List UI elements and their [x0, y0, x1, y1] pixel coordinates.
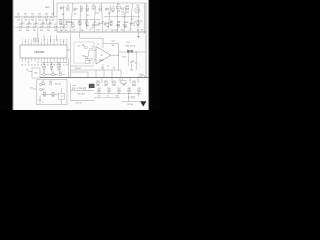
wire bm vert	[61, 88, 63, 93]
wire vertical boxA 9	[124, 6, 126, 33]
component C14	[47, 26, 50, 28]
wire horiz y70	[71, 69, 122, 71]
svg-text:56p: 56p	[121, 11, 124, 13]
component R21	[85, 57, 88, 59]
component C44	[40, 84, 42, 85]
wire vertical bus	[70, 34, 72, 78]
component C21	[104, 22, 106, 24]
svg-text:C25: C25	[73, 30, 76, 32]
svg-text:12: 12	[56, 39, 58, 41]
svg-text:1k: 1k	[93, 9, 95, 11]
node J1	[118, 55, 119, 56]
wire stub br2 1	[98, 89, 100, 92]
wire det mid	[88, 51, 90, 57]
svg-text:C34: C34	[116, 25, 119, 27]
right black border band	[148, 0, 150, 110]
svg-text:Q1: Q1	[136, 5, 138, 7]
svg-text:26: 26	[28, 64, 30, 66]
svg-text:2k: 2k	[105, 30, 107, 32]
wire out right	[121, 51, 146, 53]
svg-text:R1: R1	[17, 14, 19, 16]
svg-text:2k2: 2k2	[52, 19, 55, 21]
component R16	[72, 25, 75, 27]
svg-text:8p2: 8p2	[45, 19, 48, 21]
svg-text:23: 23	[37, 64, 39, 66]
svg-text:24: 24	[34, 64, 36, 66]
component R41	[43, 94, 46, 96]
svg-text:R27: R27	[118, 22, 121, 24]
resistor R5	[45, 16, 48, 18]
svg-text:R52: R52	[104, 81, 107, 83]
module box A right inner	[144, 3, 146, 34]
svg-text:IC3: IC3	[107, 65, 110, 67]
component C10	[19, 26, 22, 28]
svg-text:C24: C24	[94, 22, 97, 24]
wire U1 bottom bus	[41, 61, 67, 63]
wire main rail	[40, 77, 149, 79]
wire vertical boxA 5	[94, 6, 95, 33]
switch S2 contacts	[127, 50, 129, 52]
svg-text:C17: C17	[54, 24, 57, 26]
resistor R3	[31, 16, 34, 18]
svg-text:33p: 33p	[111, 30, 114, 32]
component R57	[132, 97, 135, 99]
svg-text:C42: C42	[49, 81, 52, 83]
component R15	[66, 20, 68, 22]
component C22	[110, 23, 113, 25]
svg-text:R5: R5	[128, 97, 130, 99]
svg-text:R24: R24	[127, 42, 130, 44]
detector box	[74, 42, 94, 63]
component D20	[98, 22, 100, 24]
component R55	[108, 90, 110, 91]
svg-text:7: 7	[41, 39, 42, 41]
svg-text:1n: 1n	[81, 11, 83, 13]
component D6	[92, 7, 95, 8]
svg-text:C22: C22	[112, 41, 115, 43]
component R19b	[61, 26, 64, 28]
wire U2 below stub	[102, 64, 104, 70]
svg-text:T4: T4	[81, 6, 83, 8]
svg-text:10k: 10k	[102, 22, 105, 24]
component L9	[112, 9, 115, 11]
component R25	[130, 22, 132, 24]
wire U2 out	[111, 54, 119, 56]
wire br bus	[94, 92, 140, 94]
bottom module left edge	[70, 83, 72, 101]
svg-text:+T7: +T7	[91, 46, 94, 48]
svg-text:FL1: FL1	[86, 58, 89, 60]
component R14	[59, 22, 62, 24]
component R30	[58, 62, 60, 66]
svg-text:47k: 47k	[78, 21, 81, 23]
svg-text:R26: R26	[70, 22, 73, 24]
svg-text:11: 11	[53, 39, 55, 41]
svg-text:18: 18	[53, 64, 55, 66]
wire inner y90	[71, 90, 95, 92]
component C18	[122, 8, 124, 9]
svg-text:D1: D1	[43, 72, 45, 74]
svg-text:C44: C44	[42, 84, 45, 86]
svg-text:R21: R21	[82, 55, 85, 57]
svg-text:R30: R30	[58, 64, 61, 66]
svg-text:18p: 18p	[81, 30, 84, 32]
svg-text:10: 10	[50, 39, 52, 41]
wire vertical boxA 11	[137, 6, 140, 33]
wire under U1	[41, 74, 65, 76]
component C21	[90, 59, 93, 61]
svg-text:C26: C26	[121, 30, 124, 32]
svg-text:R6: R6	[52, 14, 54, 16]
capacitor C3	[35, 17, 37, 23]
bottom module bottom2	[94, 97, 120, 99]
wire vert x118	[118, 44, 120, 71]
component C57	[118, 90, 120, 91]
left black border band	[0, 0, 12, 110]
svg-text:3: 3	[28, 39, 29, 41]
svg-text:1 C3: 1 C3	[77, 46, 80, 48]
wire stub b	[103, 70, 105, 78]
svg-text:U2: U2	[100, 55, 102, 57]
component small right box	[85, 61, 89, 64]
dark box S1	[89, 84, 94, 88]
wire bm horiz	[41, 94, 59, 96]
svg-text:8p2: 8p2	[111, 11, 114, 13]
svg-text:8p: 8p	[60, 30, 62, 32]
component L23	[117, 24, 120, 26]
svg-text:R5: R5	[45, 14, 47, 16]
component C52	[133, 83, 136, 85]
svg-text:47k: 47k	[59, 24, 62, 26]
svg-text:R14: R14	[59, 20, 62, 22]
svg-text:33k: 33k	[40, 30, 43, 32]
svg-text:T6: T6	[96, 25, 98, 27]
module box A right edge	[145, 3, 147, 78]
svg-text:C55 100n: C55 100n	[77, 94, 85, 96]
component C11	[26, 26, 29, 28]
svg-text:C17: C17	[123, 14, 126, 16]
svg-text:2n2: 2n2	[137, 30, 140, 32]
svg-text:1n: 1n	[30, 24, 32, 26]
component R5	[86, 8, 89, 10]
svg-text:1n5: 1n5	[131, 19, 134, 21]
transistor Q1	[135, 8, 140, 13]
wire U2 in-	[94, 59, 96, 61]
component C31	[51, 62, 53, 66]
resistor R31	[59, 74, 61, 75]
wire stub br 2	[111, 78, 113, 83]
svg-text:ANT1: ANT1	[45, 6, 49, 9]
component C30	[43, 62, 45, 66]
wire stub br2 4	[128, 89, 130, 92]
svg-text:R3: R3	[31, 14, 33, 16]
antenna wire	[53, 0, 55, 16]
svg-text:2k2: 2k2	[72, 27, 75, 29]
svg-text:220: 220	[65, 30, 68, 32]
wire vert x121 to rail	[120, 70, 122, 78]
wire vertical boxA 10	[131, 3, 133, 30]
svg-text:2k2: 2k2	[62, 7, 65, 9]
IC U1 outline	[20, 45, 67, 58]
capacitor C42	[49, 83, 51, 84]
wire br bottom	[122, 101, 140, 103]
svg-text:47u: 47u	[98, 96, 101, 98]
svg-text:56k: 56k	[33, 30, 36, 32]
svg-text:C31: C31	[50, 64, 53, 66]
component C41	[52, 94, 55, 96]
ground arrow GA	[137, 36, 140, 38]
svg-text:1n: 1n	[23, 24, 25, 26]
svg-text:R2: R2	[24, 14, 26, 16]
wire vertical boxA 3	[79, 6, 81, 33]
svg-text:C61 10u: C61 10u	[127, 104, 133, 106]
bottom module bottom	[71, 100, 95, 102]
svg-text:22k: 22k	[108, 13, 111, 15]
wire stub br 1	[101, 78, 103, 83]
microphone MIC1	[32, 68, 40, 78]
svg-text:1n: 1n	[51, 24, 53, 26]
svg-text:L2: L2	[67, 5, 69, 7]
op-amp U2	[96, 47, 111, 65]
svg-text:R41: R41	[43, 92, 46, 94]
svg-text:47n: 47n	[125, 26, 128, 28]
svg-text:25: 25	[31, 64, 33, 66]
svg-text:K3: K3	[30, 87, 32, 89]
svg-text:K2: K2	[26, 69, 28, 71]
wire U2 in+	[94, 50, 96, 52]
svg-text:C59: C59	[116, 96, 119, 98]
svg-text:R13: R13	[126, 6, 129, 8]
IC U1 top pins	[21, 41, 23, 45]
wire vert x136	[135, 53, 137, 62]
svg-text:13: 13	[59, 39, 61, 41]
svg-text:10k: 10k	[97, 85, 100, 87]
svg-text:R4: R4	[38, 14, 40, 16]
logo triangle	[140, 101, 146, 106]
component R52	[105, 83, 108, 85]
wire stub br2 2	[108, 89, 110, 92]
svg-text:2k2: 2k2	[126, 12, 129, 14]
wire U2 feed	[102, 38, 104, 48]
wire second row	[15, 26, 64, 28]
wire drop pin c	[56, 35, 58, 41]
wire stub br2 5	[138, 89, 140, 92]
wire nested y66	[71, 65, 95, 67]
node J3	[136, 51, 137, 52]
component R51	[97, 83, 100, 85]
resistor R1	[17, 16, 20, 18]
wire drop pin a	[43, 35, 45, 41]
ticks right rail	[138, 76, 140, 78]
svg-text:1n: 1n	[79, 25, 81, 27]
svg-text:47k: 47k	[106, 23, 109, 25]
capacitor C2	[28, 17, 30, 23]
svg-text:LS1 8: LS1 8	[122, 57, 126, 59]
wire drop pin b	[50, 35, 52, 41]
svg-text:4u7: 4u7	[129, 29, 132, 31]
svg-text:C11: C11	[26, 24, 29, 26]
svg-text:20: 20	[47, 64, 49, 66]
svg-text:C30: C30	[43, 64, 46, 66]
svg-text:15: 15	[63, 64, 65, 66]
svg-text:1n: 1n	[44, 24, 46, 26]
svg-text:6: 6	[38, 39, 39, 41]
crystal XT1	[117, 6, 121, 8]
svg-text:2k2: 2k2	[19, 30, 22, 32]
svg-text:1k: 1k	[44, 96, 46, 98]
wire br drop2	[138, 93, 140, 96]
component R53	[123, 83, 126, 85]
svg-text:R19: R19	[96, 13, 99, 15]
svg-text:4: 4	[31, 39, 32, 41]
svg-text:1k: 1k	[91, 27, 93, 29]
resistor R13	[126, 8, 129, 10]
capacitor C23	[135, 61, 137, 64]
wire right stub	[139, 73, 141, 78]
wire horiz y38	[80, 37, 104, 39]
component box corner	[121, 80, 126, 83]
U1 bottom dots	[27, 61, 30, 64]
wire jog x118	[119, 51, 122, 53]
wire stub br 4	[129, 78, 131, 83]
wire vertical boxA 8	[117, 3, 119, 32]
wire stub a	[95, 70, 97, 78]
svg-text:XT1: XT1	[117, 4, 120, 6]
wire X1 drop	[37, 29, 39, 38]
svg-text:56k: 56k	[38, 19, 41, 21]
svg-text:10n: 10n	[113, 68, 116, 70]
svg-text:D3: D3	[42, 81, 44, 83]
wire vertical boxA 2	[71, 3, 73, 32]
component L2	[66, 7, 69, 9]
capacitor C5	[49, 17, 51, 23]
wire stub c	[111, 70, 113, 78]
svg-text:10n: 10n	[113, 85, 116, 87]
svg-text:15: 15	[66, 39, 68, 41]
svg-text:C12: C12	[33, 24, 36, 26]
connector K1	[15, 16, 17, 18]
node J2	[128, 51, 129, 52]
wire horiz y43.5	[103, 43, 119, 45]
svg-text:T5: T5	[89, 30, 91, 32]
wire vertical bus2	[68, 58, 70, 78]
component C20	[90, 49, 93, 51]
svg-text:C13: C13	[40, 24, 43, 26]
svg-text:C41: C41	[51, 92, 54, 94]
svg-text:10k: 10k	[110, 25, 113, 27]
svg-text:2k2: 2k2	[17, 19, 20, 21]
svg-text:68n: 68n	[126, 22, 129, 24]
svg-text:10u: 10u	[112, 45, 115, 47]
svg-text:R31: R31	[59, 72, 62, 74]
svg-text:R20: R20	[82, 45, 85, 47]
component T4	[80, 8, 83, 10]
wire stub br 3	[119, 78, 121, 83]
svg-text:C60: C60	[130, 62, 133, 64]
wire gnd drop	[138, 32, 140, 36]
svg-text:10n: 10n	[74, 14, 77, 16]
component C13	[40, 26, 43, 28]
svg-text:C10: C10	[19, 24, 22, 26]
U1 top dots	[24, 40, 27, 43]
component C17b	[54, 26, 57, 28]
svg-text:SW1 C15 1k: SW1 C15 1k	[125, 46, 135, 48]
capacitor C4	[42, 17, 44, 23]
svg-text:4n: 4n	[89, 87, 91, 89]
svg-text:1n: 1n	[62, 22, 64, 24]
svg-text:L7: L7	[99, 6, 101, 8]
component C58	[138, 90, 140, 91]
svg-text:14: 14	[63, 39, 65, 41]
svg-text:C14: C14	[47, 24, 50, 26]
svg-text:1: 1	[22, 39, 23, 41]
component T17	[79, 23, 82, 25]
component C56	[98, 90, 100, 91]
svg-text:1k: 1k	[107, 96, 109, 98]
wire vert x128	[127, 53, 129, 66]
svg-text:p2: p2	[87, 14, 89, 16]
svg-text:LM386: LM386	[99, 60, 104, 62]
svg-text:C36: C36	[101, 68, 104, 70]
svg-text:68p: 68p	[26, 30, 29, 32]
component L7 box	[72, 88, 74, 89]
svg-text:L9: L9	[112, 7, 114, 9]
svg-text:56k: 56k	[24, 19, 27, 21]
svg-text:A4: A4	[142, 73, 144, 76]
bottom-left module box	[37, 80, 68, 105]
component C19	[92, 23, 94, 25]
IC U1 bottom pins	[21, 58, 23, 62]
svg-text:T3: T3	[61, 96, 63, 98]
component R26	[137, 23, 140, 25]
component C54 box	[83, 88, 85, 89]
resistor R2	[24, 16, 27, 18]
wire nested y72	[71, 71, 89, 73]
svg-text:C52: C52	[132, 81, 135, 83]
svg-text:C2: C2	[97, 44, 99, 46]
diode D1	[43, 74, 45, 75]
resistor R6	[52, 16, 55, 18]
svg-text:4k7: 4k7	[105, 85, 108, 87]
wire vertical boxA 1	[63, 6, 65, 30]
module box A bottom edge	[57, 31, 146, 33]
svg-text:C51: C51	[112, 81, 115, 83]
component R3	[74, 8, 76, 9]
svg-text:100n: 100n	[114, 30, 118, 32]
wire vertical boxA 4	[85, 3, 87, 30]
wire br drop1	[128, 93, 130, 101]
svg-text:1n: 1n	[37, 24, 39, 26]
component X1	[34, 38, 39, 41]
component R56	[128, 90, 130, 91]
wire stub br2 3	[118, 89, 120, 92]
svg-text:R28: R28	[97, 29, 100, 31]
svg-text:2k2: 2k2	[99, 11, 102, 13]
svg-text:68p: 68p	[31, 19, 34, 21]
svg-text:C35: C35	[140, 21, 143, 23]
svg-text:D2: D2	[52, 72, 54, 74]
wire boxA rail1	[59, 18, 101, 20]
svg-text:47u: 47u	[52, 96, 55, 98]
wire vertical boxA 6	[101, 3, 104, 32]
wire boxA rail2	[104, 16, 140, 18]
svg-text:D6: D6	[92, 5, 94, 7]
svg-text:R42 220: R42 220	[55, 83, 61, 85]
diode D2	[52, 74, 54, 75]
component T1	[60, 6, 62, 7]
component L7	[99, 8, 102, 10]
module box A outline	[57, 3, 146, 32]
